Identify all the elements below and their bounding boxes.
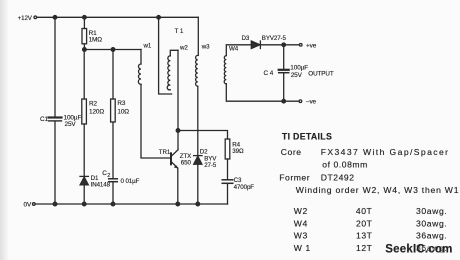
value D2 27-5 <box>204 162 217 169</box>
svg-text:C3: C3 <box>234 177 242 184</box>
svg-text:of 0.08mm: of 0.08mm <box>322 160 368 170</box>
wire W4 top lead <box>226 45 251 56</box>
svg-text:30awg.: 30awg. <box>416 206 447 216</box>
winding W4 <box>224 56 226 84</box>
value R2 120 <box>89 109 104 116</box>
label R3 <box>117 100 126 107</box>
svg-text:12T: 12T <box>356 243 373 253</box>
winding W2 <box>167 56 170 90</box>
label C1 <box>40 116 49 123</box>
svg-text:D3: D3 <box>242 35 250 42</box>
svg-text:36awg.: 36awg. <box>416 231 447 241</box>
label TR1 <box>159 149 171 156</box>
value TR1 650 <box>181 159 192 166</box>
svg-text:+12V: +12V <box>18 15 33 22</box>
svg-text:650: 650 <box>181 159 192 166</box>
svg-text:D2: D2 <box>200 148 208 155</box>
value R3 10 <box>117 109 129 116</box>
svg-text:TI DETAILS: TI DETAILS <box>282 131 332 141</box>
table row W1 <box>294 243 448 253</box>
resistor R4 <box>225 139 230 159</box>
label C3 <box>234 177 242 184</box>
wire R2 top lead <box>83 50 85 100</box>
label R2 <box>89 101 98 108</box>
value C1 25V <box>65 121 77 128</box>
resistor R1 <box>82 29 87 44</box>
watermark SeekIC.com <box>385 244 452 256</box>
wire W1 top lead <box>140 50 142 65</box>
note Core value line2 <box>322 160 368 170</box>
table row W4 <box>294 218 448 228</box>
svg-text:0V: 0V <box>24 201 32 208</box>
svg-text:25V: 25V <box>65 121 77 128</box>
wire R1 top lead <box>83 17 85 28</box>
label w3 <box>201 44 210 51</box>
label R1 <box>89 30 98 37</box>
svg-text:TR1: TR1 <box>159 149 171 156</box>
svg-text:C1: C1 <box>40 116 49 123</box>
label 0V <box>24 201 32 208</box>
svg-text:w2: w2 <box>179 45 188 52</box>
label D2 <box>200 148 208 155</box>
svg-text:OUTPUT: OUTPUT <box>308 70 334 77</box>
svg-text:Winding order W2, W4, W3 then: Winding order W2, W4, W3 then W1 <box>296 185 459 195</box>
junction 0V rail at D1 <box>82 202 86 206</box>
wire W4 bottom to -ve <box>226 84 299 101</box>
label +ve <box>306 42 317 49</box>
svg-text:BYV27-5: BYV27-5 <box>262 35 287 42</box>
wire D3 cathode to +ve <box>260 44 299 46</box>
svg-text:27-5: 27-5 <box>204 162 217 169</box>
value C1 100uF <box>64 115 82 122</box>
label w1 <box>143 43 152 50</box>
terminal 0V <box>33 203 36 206</box>
wire collector column <box>177 50 179 149</box>
value C4 100uF <box>290 65 308 72</box>
svg-text:W4: W4 <box>294 218 308 228</box>
table row W3 <box>294 231 448 241</box>
winding W1 <box>138 64 141 84</box>
junction output + at C4 <box>282 43 286 47</box>
capacitor C2 <box>109 179 118 182</box>
value C2 0.01uF <box>121 178 140 185</box>
wire C1 column lower <box>54 122 56 204</box>
svg-text:w3: w3 <box>201 44 210 51</box>
svg-text:+ve: +ve <box>306 42 317 49</box>
wire D2 bottom lead <box>197 164 199 204</box>
svg-text:SeekIC.com: SeekIC.com <box>385 244 452 256</box>
terminal +ve <box>299 44 302 47</box>
wire emitter lead <box>177 168 179 204</box>
svg-text:0 01µF: 0 01µF <box>121 178 140 185</box>
junction top rail at W2 feed column <box>157 15 161 19</box>
capacitor C3 <box>222 180 233 184</box>
junction 0V rail at C2 <box>111 202 115 206</box>
svg-text:W4: W4 <box>229 46 239 53</box>
wire W1 bottom lead to base <box>141 84 170 158</box>
capacitor C1 <box>49 118 62 121</box>
wire W2 feed from rail <box>159 17 172 94</box>
svg-text:20T: 20T <box>356 218 373 228</box>
junction output - at C4 <box>282 99 286 103</box>
note Core label <box>281 147 302 157</box>
svg-text:W2: W2 <box>294 206 308 216</box>
wire C2 bottom lead <box>112 182 114 204</box>
junction 0V rail at D2 <box>196 202 200 206</box>
value TR1 ZTX <box>180 153 191 160</box>
svg-text:39Ω: 39Ω <box>232 148 244 155</box>
svg-text:2: 2 <box>107 173 110 179</box>
label +12V <box>18 15 33 22</box>
terminal +12V <box>34 16 37 19</box>
svg-text:W3: W3 <box>294 231 308 241</box>
wire +12V top rail <box>37 16 199 18</box>
value D1 IN4148 <box>91 182 111 189</box>
wire R2 bottom lead <box>83 124 85 176</box>
diode D3 <box>251 41 260 49</box>
svg-text:W 1: W 1 <box>294 243 311 253</box>
value R4 39 <box>232 148 244 155</box>
wire R4 to C3 <box>227 159 229 179</box>
wire C1 column upper <box>54 17 56 116</box>
junction top rail at C1 column <box>53 15 57 19</box>
label -ve <box>306 99 317 106</box>
wire R3 top lead <box>112 50 114 100</box>
value D2 BYV <box>204 155 217 162</box>
value D3 BYV27-5 <box>262 35 287 42</box>
svg-text:R3: R3 <box>117 100 126 107</box>
diode D2 <box>194 156 202 165</box>
label C4 <box>264 70 274 77</box>
svg-text:10Ω: 10Ω <box>117 109 129 116</box>
transistor TR1 <box>171 150 178 169</box>
junction collector to snubber <box>176 129 180 133</box>
svg-text:13T: 13T <box>356 231 373 241</box>
resistor R2 <box>82 99 87 124</box>
wire snubber branch <box>178 131 228 140</box>
svg-text:DT2492: DT2492 <box>321 173 355 183</box>
label R4 <box>232 141 240 148</box>
junction top rail at R1 column <box>83 15 87 19</box>
svg-text:–ve: –ve <box>306 99 317 106</box>
note winding order <box>296 185 459 195</box>
svg-text:25V: 25V <box>291 72 303 79</box>
svg-text:Former: Former <box>279 173 310 183</box>
label D1 <box>91 175 99 182</box>
note Former label <box>279 173 310 183</box>
svg-text:100µF: 100µF <box>290 65 308 72</box>
wire W3 top lead <box>197 17 199 55</box>
wire bias node horizontal <box>84 49 141 51</box>
diode D1 <box>80 176 88 184</box>
table row W2 <box>294 206 448 216</box>
label W4 <box>229 46 239 53</box>
note Former value <box>321 173 355 183</box>
terminal -ve <box>299 100 302 103</box>
svg-text:FX3437 With Gap/Spacer: FX3437 With Gap/Spacer <box>321 147 450 157</box>
svg-text:T 1: T 1 <box>175 28 184 35</box>
svg-text:4700pF: 4700pF <box>234 184 255 191</box>
junction 0V rail at C1 <box>53 202 57 206</box>
wire 0V rail <box>35 203 227 205</box>
wire W2 top elbow to collector column <box>170 50 178 56</box>
value C4 25V <box>291 72 303 79</box>
svg-text:30awg.: 30awg. <box>416 218 447 228</box>
label T1 <box>175 28 184 35</box>
svg-text:w1: w1 <box>143 43 152 50</box>
capacitor C4 <box>279 70 289 73</box>
svg-text:R2: R2 <box>89 101 98 108</box>
wire D1 bottom lead <box>83 185 85 204</box>
value C3 4700pF <box>234 184 255 191</box>
wire R1 bottom lead <box>83 44 85 50</box>
note Core value line1 <box>321 147 450 157</box>
label OUTPUT <box>308 70 334 77</box>
svg-text:40T: 40T <box>356 206 373 216</box>
wire C4 bottom lead <box>283 73 285 101</box>
value R1 1M <box>89 37 103 44</box>
svg-text:Core: Core <box>281 147 302 157</box>
junction bias node at R3 <box>111 48 115 52</box>
svg-text:120Ω: 120Ω <box>89 109 104 116</box>
svg-text:C 4: C 4 <box>264 70 274 77</box>
wire R3 bottom lead <box>112 122 114 178</box>
label D3 <box>242 35 250 42</box>
resistor R3 <box>111 99 116 122</box>
svg-text:IN4148: IN4148 <box>91 182 111 189</box>
wire C4 top lead <box>283 45 285 69</box>
label w2 <box>179 45 188 52</box>
note T1 DETAILS title <box>282 131 332 141</box>
junction bias node at R2 <box>83 48 87 52</box>
wire W3 bottom lead <box>197 86 199 155</box>
svg-text:1MΩ: 1MΩ <box>89 37 103 44</box>
label C2 <box>102 170 110 179</box>
winding W3 <box>196 55 198 86</box>
wire C3 bottom lead <box>227 184 229 204</box>
junction 0V rail at emitter <box>176 202 180 206</box>
